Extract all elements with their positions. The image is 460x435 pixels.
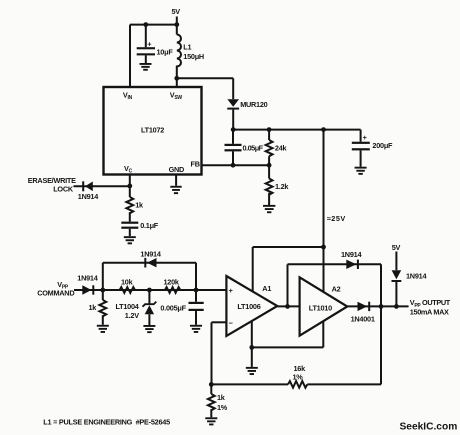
svg-text:1N914: 1N914 (78, 192, 99, 201)
svg-text:LT1010: LT1010 (309, 304, 332, 313)
svg-text:LOCK: LOCK (53, 185, 74, 194)
svg-text:+: + (363, 133, 367, 142)
svg-text:0.1μF: 0.1μF (140, 221, 159, 230)
svg-text:A1: A1 (262, 284, 271, 293)
svg-text:200μF: 200μF (372, 141, 393, 150)
svg-text:1%: 1% (293, 372, 304, 381)
svg-text:1N914: 1N914 (341, 250, 362, 259)
svg-text:10k: 10k (121, 277, 134, 286)
svg-text:5V: 5V (172, 7, 181, 16)
svg-text:A2: A2 (332, 284, 341, 293)
svg-text:−: − (229, 318, 233, 327)
svg-text:1.2k: 1.2k (275, 182, 289, 191)
svg-text:0.005μF: 0.005μF (160, 304, 186, 313)
svg-text:5V: 5V (392, 243, 401, 252)
svg-text:10μF: 10μF (157, 47, 174, 56)
svg-text:L1 = PULSE ENGINEERING #PE-52: L1 = PULSE ENGINEERING #PE-52645 (43, 417, 170, 426)
svg-text:LT1072: LT1072 (141, 126, 164, 135)
svg-text:≈25V: ≈25V (327, 214, 346, 223)
svg-text:SeekIC.com: SeekIC.com (400, 421, 458, 432)
svg-text:24k: 24k (275, 144, 288, 153)
svg-text:150μH: 150μH (183, 52, 204, 61)
svg-text:1N914: 1N914 (77, 273, 98, 282)
svg-text:1k: 1k (135, 201, 144, 210)
svg-text:LT1006: LT1006 (237, 302, 260, 311)
svg-text:150mA MAX: 150mA MAX (410, 307, 449, 316)
svg-text:1%: 1% (217, 403, 228, 412)
svg-text:FB: FB (191, 159, 200, 168)
svg-text:GND: GND (169, 165, 184, 174)
svg-text:+: + (147, 40, 151, 49)
svg-text:L1: L1 (183, 43, 191, 52)
svg-text:VSW: VSW (170, 91, 183, 102)
svg-text:1k: 1k (217, 393, 226, 402)
svg-text:VIN: VIN (123, 91, 133, 102)
svg-text:LT1004: LT1004 (116, 302, 140, 311)
svg-text:0.05μF: 0.05μF (243, 143, 264, 152)
svg-text:MUR120: MUR120 (240, 100, 267, 109)
svg-text:+: + (229, 286, 233, 295)
svg-text:COMMAND: COMMAND (37, 289, 74, 298)
svg-text:1N914: 1N914 (406, 271, 427, 280)
svg-text:VC: VC (124, 164, 133, 175)
svg-text:1N914: 1N914 (140, 249, 161, 258)
svg-text:1N4001: 1N4001 (351, 315, 375, 324)
svg-text:1k: 1k (89, 303, 98, 312)
svg-text:120k: 120k (164, 277, 180, 286)
svg-text:1.2V: 1.2V (125, 311, 139, 320)
